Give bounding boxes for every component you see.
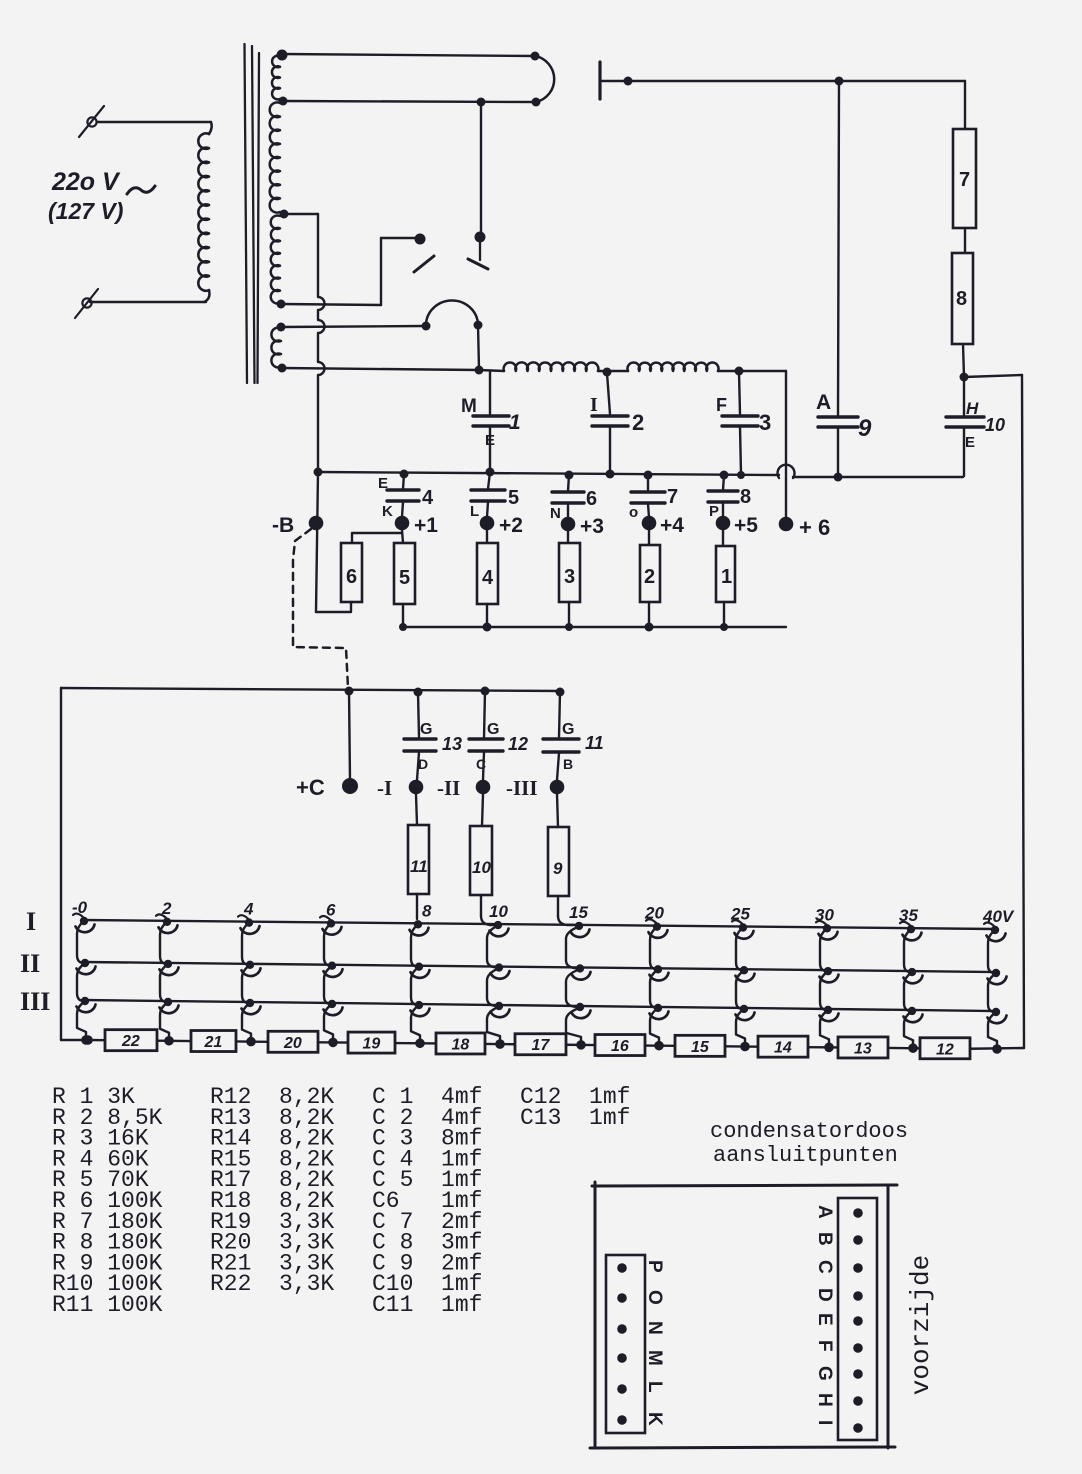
terminal -I (409, 780, 424, 795)
resistor R14 (758, 1036, 808, 1057)
capacitor C1 (M) (489, 372, 491, 414)
svg-text:-II: -II (437, 776, 460, 800)
svg-text:I: I (26, 907, 36, 936)
svg-text:O: O (644, 1290, 665, 1305)
capacitor C7 (o) (647, 475, 649, 491)
capacitor C13 (G/D) (418, 692, 419, 737)
svg-text:K: K (644, 1412, 665, 1426)
svg-text:G: G (562, 721, 574, 738)
left tall wire down to chain (60, 688, 62, 1040)
svg-text:G: G (814, 1366, 835, 1381)
svg-text:B: B (814, 1232, 835, 1246)
svg-text:15: 15 (691, 1039, 710, 1056)
svg-text:12: 12 (508, 734, 528, 754)
terminal O (617, 1293, 627, 1303)
junction dots hairpin (531, 52, 540, 61)
wire down to +6 terminal (785, 371, 787, 522)
svg-text:condensatordoos: condensatordoos (710, 1119, 908, 1144)
switch S2 blade (468, 259, 488, 269)
svg-text:K: K (382, 503, 393, 520)
wire choke L2 to right corner (718, 370, 786, 372)
resistor R21 (191, 1031, 236, 1052)
svg-text:3: 3 (759, 410, 771, 435)
bus loop over +6 wire (778, 465, 795, 478)
svg-text:N: N (550, 505, 561, 522)
svg-text:M: M (461, 396, 477, 417)
resistor R15 (675, 1035, 725, 1056)
wire chain segment before R17 (485, 1043, 515, 1046)
wire from hairpin down to switch S2 (480, 102, 482, 236)
wire chain segment before R13 (808, 1046, 838, 1049)
resistor R3 (567, 531, 569, 543)
terminal +1 (395, 516, 410, 531)
svg-text:17: 17 (532, 1037, 551, 1054)
filter line left stub (479, 370, 504, 371)
dashed link -B to lower bus (293, 529, 348, 688)
wire chain segment before R15 (645, 1044, 675, 1047)
wire chain segment before R21 (157, 1039, 191, 1042)
wire chain segment before R16 (566, 1044, 595, 1047)
resistor R18 (436, 1033, 485, 1054)
capacitor C5 (L) (488, 472, 490, 489)
resistor R17 (515, 1034, 566, 1055)
resistor R7 (953, 129, 976, 228)
svg-text:13: 13 (854, 1040, 872, 1057)
capacitor C2 (I) (607, 373, 610, 414)
wire tap2 to vertical bus x318 (284, 213, 318, 215)
svg-text:C: C (814, 1260, 835, 1274)
svg-text:F: F (814, 1340, 835, 1352)
svg-text:-III: -III (506, 776, 538, 800)
terminal F (853, 1343, 863, 1353)
lower bus wire (61, 688, 561, 691)
svg-text:+4: +4 (660, 514, 684, 537)
svg-text:+2: +2 (499, 514, 523, 537)
resistor R5 (402, 530, 403, 543)
svg-text:10: 10 (985, 415, 1005, 435)
svg-text:III: III (20, 987, 50, 1016)
terminal +5 (716, 516, 731, 531)
secondary winding section 3 (271, 215, 280, 303)
svg-text:6: 6 (346, 566, 357, 588)
svg-text:16: 16 (611, 1038, 629, 1055)
wire hairpin top: tap1 to right loop (282, 54, 535, 56)
capacitor C9 (A) (838, 81, 839, 416)
svg-text:E: E (814, 1313, 835, 1326)
wire chain right end (970, 1047, 1024, 1050)
capacitor bus wire (318, 472, 779, 475)
svg-text:II: II (20, 949, 40, 978)
terminal I (853, 1423, 863, 1433)
wire tap3 to switch S1 (281, 304, 381, 305)
svg-text:22: 22 (121, 1033, 140, 1050)
svg-text:C: C (476, 756, 486, 772)
svg-text:-I: -I (377, 776, 392, 800)
svg-text:21: 21 (204, 1034, 223, 1051)
input bar terminal (598, 62, 601, 99)
svg-text:2: 2 (644, 566, 655, 588)
wire tap4 upper with arch (281, 326, 424, 327)
svg-text:7: 7 (667, 486, 678, 508)
terminal B (853, 1235, 863, 1245)
resistor R1 (722, 530, 724, 546)
resistor R8 (952, 253, 973, 344)
terminal D (853, 1291, 863, 1301)
terminal +C (349, 690, 350, 780)
svg-text:G: G (420, 721, 432, 738)
choke L2 (627, 362, 718, 371)
right terminal strip (838, 1198, 877, 1440)
capacitor C10 (H) (963, 377, 965, 415)
terminal P (617, 1263, 627, 1273)
svg-text:A: A (816, 391, 831, 414)
capacitor C3 (F) (739, 372, 740, 414)
switch S1 blade (414, 256, 434, 272)
svg-text:-B: -B (272, 514, 294, 537)
svg-text:10: 10 (472, 858, 491, 877)
svg-text:I: I (814, 1420, 835, 1425)
condensatordoos outline box (592, 1185, 897, 1186)
svg-text:10: 10 (489, 902, 508, 921)
rail II (83, 962, 996, 972)
switch S2 contact (475, 232, 486, 243)
terminal A (853, 1208, 863, 1218)
svg-text:1: 1 (721, 566, 732, 588)
svg-text:L: L (644, 1381, 665, 1393)
svg-text:A: A (814, 1205, 835, 1219)
terminal M (617, 1353, 627, 1363)
bottom bus of discharge resistors (403, 626, 786, 628)
mains plug terminal top (87, 117, 96, 126)
svg-text:B: B (563, 756, 573, 772)
svg-text:2: 2 (632, 410, 644, 435)
svg-text:M: M (644, 1350, 665, 1366)
resistor R20 (268, 1031, 318, 1052)
wire tap4 lower (winding bottom) to filter line (282, 368, 479, 370)
mains plug terminal bottom (82, 298, 91, 307)
svg-text:H: H (814, 1393, 835, 1407)
svg-text:(127 V): (127 V) (48, 198, 123, 224)
terminal +3 (561, 517, 576, 532)
terminal E (853, 1316, 863, 1326)
resistor R16 (595, 1035, 645, 1056)
secondary winding section 4 (271, 328, 281, 368)
resistor R9 (557, 794, 558, 827)
svg-text:15: 15 (569, 903, 588, 922)
svg-text:H: H (966, 399, 979, 418)
svg-text:14: 14 (774, 1040, 792, 1057)
svg-text:P: P (709, 503, 719, 520)
svg-text:voorzijde: voorzijde (906, 1255, 936, 1395)
svg-text:22o V: 22o V (51, 168, 121, 196)
svg-text:+3: +3 (580, 515, 604, 538)
terminal N (617, 1324, 627, 1334)
tall right vertical wire (1022, 375, 1024, 1048)
resistor R19 (348, 1032, 395, 1053)
svg-text:C13 1mf: C13 1mf (520, 1105, 630, 1131)
svg-text:E: E (485, 432, 495, 449)
svg-text:9: 9 (858, 415, 872, 442)
wire chain segment before R19 (318, 1041, 348, 1044)
svg-text:+5: +5 (734, 514, 758, 537)
resistor R22 (105, 1030, 157, 1051)
svg-text:+1: +1 (414, 514, 438, 537)
svg-text:12: 12 (936, 1041, 954, 1058)
resistor R10 (482, 794, 483, 826)
resistor R13 (838, 1037, 888, 1058)
terminal +2 (480, 516, 495, 531)
rail III (83, 1000, 996, 1011)
svg-text:+ 6: + 6 (799, 515, 830, 540)
svg-text:E: E (378, 475, 388, 492)
terminal +6 (779, 517, 794, 532)
svg-text:6: 6 (586, 488, 597, 510)
resistor R12 (920, 1038, 970, 1059)
terminal C (853, 1263, 863, 1273)
terminal -II (476, 780, 491, 795)
svg-text:G: G (487, 721, 499, 738)
svg-text:5: 5 (508, 487, 519, 509)
svg-text:3: 3 (564, 566, 575, 588)
svg-text:o: o (629, 504, 638, 521)
svg-text:4: 4 (422, 487, 434, 509)
resistor R6 (341, 543, 362, 602)
wire R8 junction to tall right line (964, 375, 1022, 377)
svg-text:F: F (716, 395, 727, 415)
resistor R4 (486, 530, 488, 543)
capacitor C4 (K) (403, 474, 404, 489)
svg-text:8: 8 (956, 288, 967, 310)
choke L1 (504, 362, 599, 371)
svg-text:9: 9 (553, 859, 563, 878)
svg-text:R22 3,3K: R22 3,3K (210, 1271, 334, 1297)
terminal -B (316, 472, 318, 612)
svg-text:1: 1 (509, 411, 521, 434)
vertical wire x318 with hops down to capacitor bus (318, 214, 325, 471)
AC tilde symbol (127, 186, 155, 194)
wire chain segment before R22 (88, 1039, 105, 1042)
capacitor C6 (N) (568, 475, 569, 491)
svg-text:8: 8 (740, 486, 751, 508)
wire primary top (97, 121, 211, 123)
terminal +4 (642, 516, 657, 531)
wire chain segment before R18 (395, 1042, 436, 1045)
svg-text:I: I (590, 394, 598, 416)
capacitor C12 (G/C) (484, 691, 485, 738)
svg-text:18: 18 (452, 1036, 470, 1053)
wire primary bottom (90, 301, 206, 303)
svg-text:D: D (814, 1288, 835, 1302)
svg-text:4: 4 (482, 567, 494, 589)
wire between chokes (598, 370, 628, 372)
tap dots on secondary (277, 50, 288, 61)
left terminal strip (606, 1255, 645, 1433)
capacitor C8 (P) (723, 475, 724, 490)
resistor R11 (416, 794, 417, 825)
rail I (83, 920, 994, 929)
svg-text:5: 5 (399, 567, 410, 589)
secondary winding section 1 (272, 56, 280, 100)
resistor R2 (648, 530, 650, 545)
terminal -III (550, 780, 565, 795)
wire top horizontal (602, 80, 965, 82)
svg-text:7: 7 (959, 169, 970, 191)
svg-text:R11 100K: R11 100K (52, 1292, 163, 1318)
terminal H (853, 1396, 863, 1406)
svg-text:19: 19 (363, 1036, 381, 1053)
terminal L (617, 1384, 627, 1394)
wire chain segment before R12 (888, 1047, 920, 1050)
svg-text:C11 1mf: C11 1mf (372, 1292, 482, 1318)
wire chain segment before R20 (236, 1040, 268, 1043)
svg-text:11: 11 (410, 857, 428, 876)
svg-text:+C: +C (296, 775, 325, 800)
svg-text:L: L (470, 503, 479, 520)
transformer core (245, 44, 248, 383)
svg-text:aansluitpunten: aansluitpunten (713, 1143, 898, 1168)
secondary winding section 2 (270, 102, 280, 212)
svg-text:E: E (965, 434, 975, 451)
svg-text:N: N (644, 1321, 665, 1335)
svg-text:P: P (644, 1260, 665, 1273)
svg-text:20: 20 (283, 1035, 302, 1052)
svg-text:13: 13 (442, 734, 462, 754)
bus junction dots (314, 468, 323, 477)
svg-text:11: 11 (585, 733, 604, 753)
switch S1 contact (415, 234, 426, 245)
wire chain segment before R14 (725, 1045, 758, 1048)
svg-text:D: D (418, 756, 428, 772)
svg-text:8: 8 (422, 901, 432, 920)
primary winding of transformer (198, 133, 209, 290)
terminal G (853, 1369, 863, 1379)
capacitor C11 (G/B) (559, 692, 560, 737)
terminal K (617, 1415, 627, 1425)
wire down to R7 (964, 81, 966, 129)
